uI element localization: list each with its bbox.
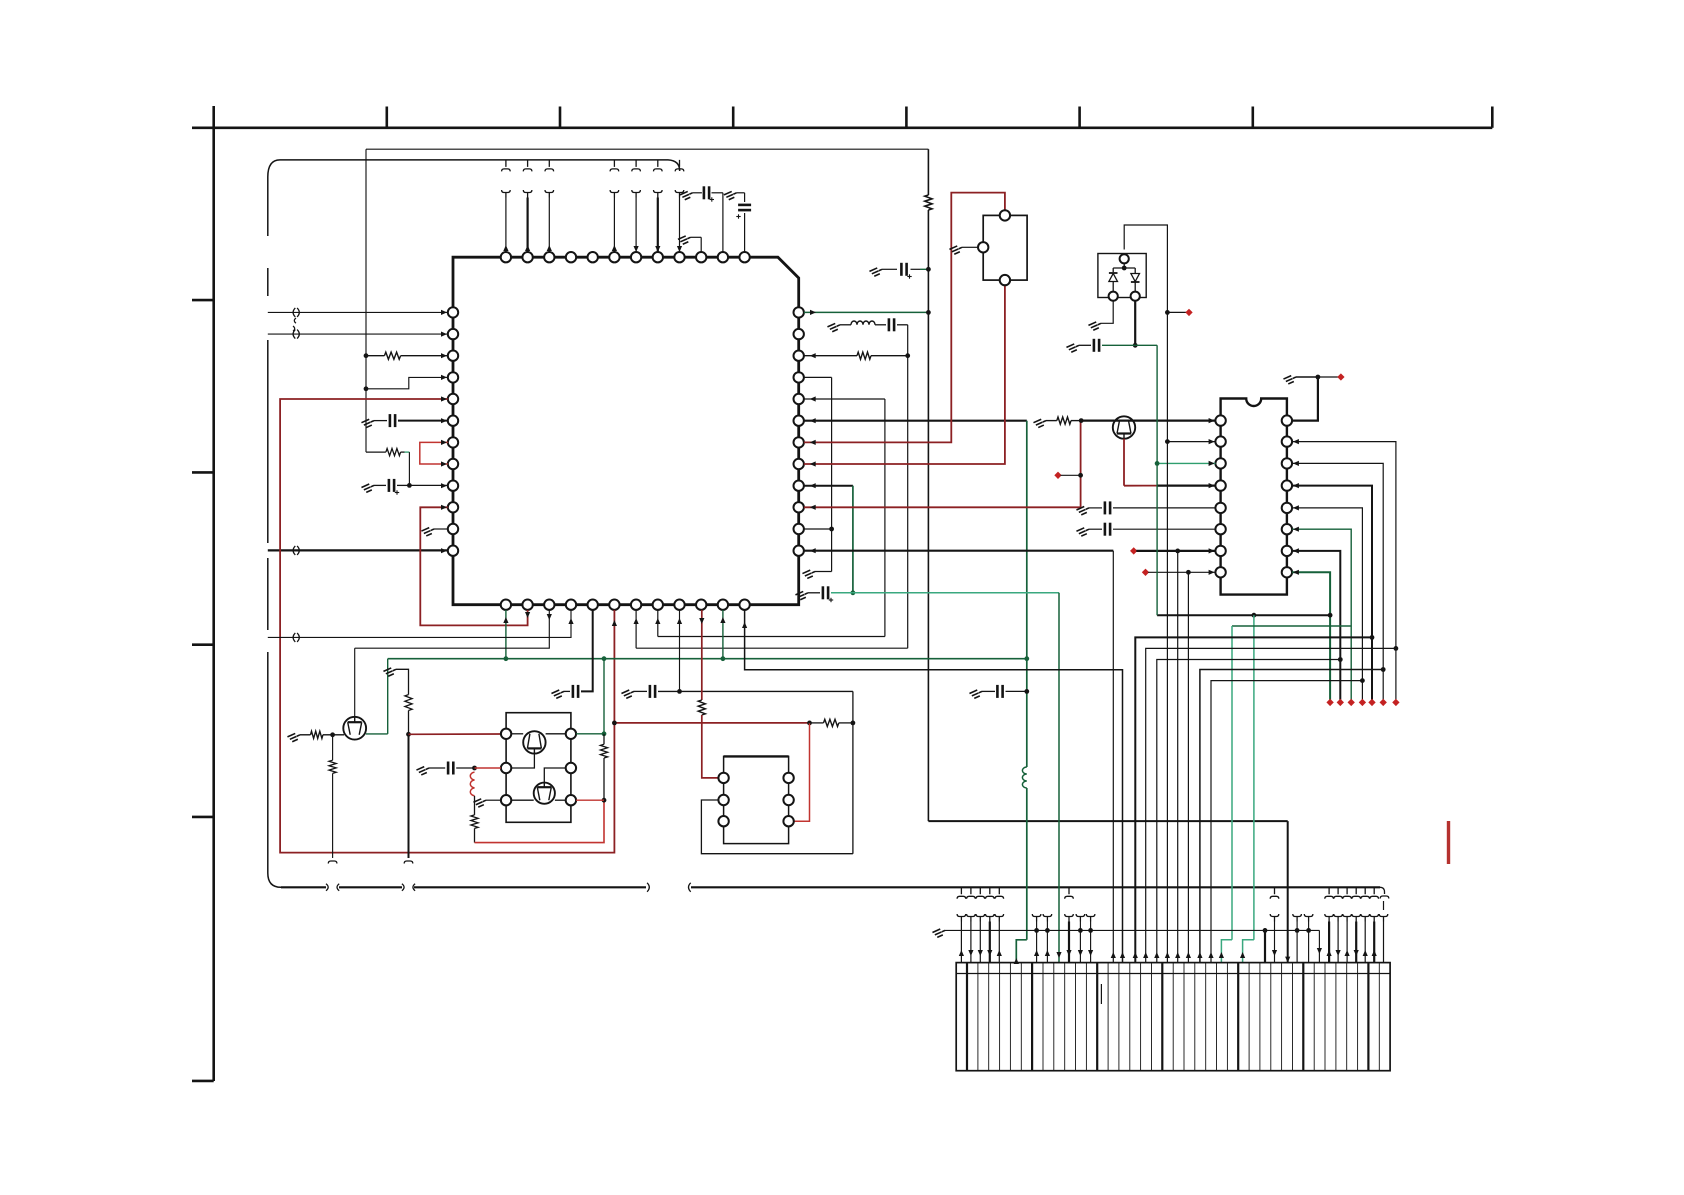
connector CN outline bbox=[956, 963, 1390, 1071]
resistor row y452 to L9 node bbox=[366, 451, 386, 453]
wire U2-L7 with testpoint bbox=[1130, 547, 1137, 554]
resonator X1 box bbox=[983, 215, 1027, 280]
cap gnd to U2-L5 bbox=[1076, 505, 1090, 516]
vertical x332.6 with resistor to edge bbox=[332, 735, 334, 760]
diode D1a bbox=[1112, 268, 1114, 272]
wire U2-R6 green bbox=[1292, 529, 1351, 700]
filter pins bbox=[718, 773, 728, 783]
wire U1-B11 green drop bbox=[722, 610, 724, 659]
wire bundle verticals entering connector bbox=[1177, 551, 1179, 963]
wire U2-R1 to ground and testpoint bbox=[1292, 377, 1318, 421]
wire U1-R10 red to transistor base node bbox=[804, 506, 1081, 508]
wire row y615 thick R8 net bbox=[1157, 614, 1330, 616]
wire green vertical x1026.8 with coil to connector bbox=[1026, 421, 1028, 659]
resonator ground leg bbox=[962, 246, 978, 248]
red net L10 to B2 bbox=[420, 507, 527, 625]
resistor between red and cap net y723 bbox=[824, 719, 839, 726]
red branch B6 row y723 bbox=[614, 722, 809, 724]
red loop bottom bbox=[475, 800, 605, 842]
wire x928 bottom run to connector bbox=[928, 820, 1287, 822]
wire green U1-R1 to x928 bbox=[804, 311, 929, 313]
wire U1-B5 cap gnd bbox=[581, 610, 593, 692]
filter box FL1 bbox=[724, 756, 789, 843]
wire U1-B4 to board edge bbox=[268, 610, 571, 638]
ground bus stubs right bbox=[1295, 928, 1300, 933]
wire D1 left leg to ground bbox=[1101, 301, 1113, 324]
wire row y659 R7 net bbox=[1157, 660, 1341, 963]
stub testpoint y312 on x1167 bbox=[1165, 310, 1170, 315]
wire D1 right leg green node bbox=[1134, 301, 1136, 346]
U1 pin12 series cap to ground bbox=[744, 193, 746, 202]
transistor Q2 bbox=[1113, 416, 1135, 438]
capacitor C to ground at x928 y269 bbox=[869, 266, 883, 277]
wire U2-L8 with testpoint bbox=[1142, 569, 1149, 576]
wire U2-R2 down right bbox=[1292, 442, 1396, 700]
stub red testpoint y475 bbox=[1054, 472, 1061, 479]
wire U1-B3 to Q1 collector bbox=[355, 610, 550, 648]
red to box1 R3 bbox=[576, 799, 604, 801]
wire row y680 R5 net bbox=[1211, 681, 1362, 963]
wire U2-R3 bbox=[1292, 463, 1383, 699]
wire green node to x1157 bbox=[1135, 344, 1157, 346]
single stub pair x1274.5 bbox=[1270, 887, 1279, 899]
red down to box2 R3 bbox=[794, 723, 810, 821]
U1 pin11 cap to ground bbox=[722, 193, 724, 252]
wire U1-L2 from board edge bbox=[268, 333, 448, 335]
wire row y626 green R6 net bbox=[1232, 625, 1351, 627]
wire U2-L3 green bbox=[1157, 462, 1215, 464]
microcontroller U1 QFP outline bbox=[453, 257, 799, 605]
transistor array box bbox=[506, 713, 571, 823]
ground resistor at Q2 base bbox=[1033, 418, 1047, 429]
U1 bottom pins bbox=[501, 600, 511, 610]
wire Q1 emitter green to bus bbox=[366, 733, 388, 735]
U2 right pins bbox=[1282, 415, 1292, 425]
single stub pair x1069 bbox=[1065, 887, 1074, 899]
cap gnd to U1-L6 bbox=[361, 418, 375, 429]
red wire to box1 L1 bbox=[409, 733, 501, 735]
U1 top pins bbox=[501, 252, 511, 262]
wire U1-B1 green drop bbox=[505, 610, 507, 659]
wire U1-L12 thick from board edge bbox=[268, 549, 448, 551]
ground bus thick pin x1265 bbox=[1263, 928, 1268, 933]
wire main vertical x928 with resistor bbox=[927, 149, 929, 195]
wire U1-R12 thick to connector bbox=[804, 550, 1113, 552]
vertical net x366 bbox=[365, 149, 367, 452]
filter chain gnd-coil-cap at y325 bbox=[827, 322, 841, 333]
wire U1-B10 red through resistor to box2 bbox=[701, 610, 703, 700]
wire net top horizontal y149 bbox=[366, 148, 928, 150]
green bus y658.7 bbox=[388, 658, 1027, 660]
connector marks on left edge wires bbox=[293, 308, 295, 317]
vertical x852.9 cap net bbox=[852, 691, 854, 723]
wire U1-R7 red via top to resonator bbox=[804, 193, 1005, 443]
board outline top edge bbox=[268, 160, 680, 177]
coil resistor chain x474.5 bbox=[470, 772, 474, 796]
transistor Q3 bbox=[511, 733, 523, 735]
red net U1-L5 to B6 bbox=[280, 399, 614, 853]
wire row y669 R3 net bbox=[1200, 670, 1383, 963]
gnd polcap to U1-L9 bbox=[361, 482, 375, 493]
wire D1 top to vertical x1167 bbox=[1124, 225, 1167, 963]
board edge end hook wire bbox=[1383, 901, 1385, 910]
border tick marks top bbox=[385, 107, 388, 128]
cap gnd to U2-L6 bbox=[1076, 526, 1090, 537]
right group connector stub pairs bbox=[1325, 887, 1334, 899]
cap gnd at green node y345 bbox=[1066, 342, 1080, 353]
board outline bottom edge (broken) bbox=[268, 873, 281, 887]
wire U1-R9 green to teal row bbox=[804, 485, 853, 487]
wire Q2 collector row to U2-L1 bbox=[1081, 420, 1215, 422]
U2 left pins bbox=[1215, 415, 1225, 425]
board outline left edge (broken) bbox=[267, 177, 269, 236]
wire U1-R3 resistor net bbox=[810, 353, 816, 358]
diode pack D1 box bbox=[1098, 254, 1146, 298]
connector slot lines bbox=[978, 963, 1379, 1071]
ground bus above connector bbox=[932, 927, 946, 938]
resistor on x604 bbox=[603, 734, 605, 745]
wire U2-R8 green thick bbox=[1292, 572, 1330, 700]
ic U2 DIP outline with notch bbox=[1221, 399, 1287, 595]
box pins bbox=[501, 729, 511, 739]
connector inner tick bbox=[1100, 984, 1102, 1004]
ground resistor at Q1 base bbox=[287, 732, 301, 743]
border tick marks left bbox=[192, 299, 214, 302]
red tick mark right side bbox=[1447, 821, 1450, 864]
wire row y648 R2 net bbox=[1146, 648, 1396, 962]
D1 internal top tie bbox=[1122, 266, 1127, 271]
wire U1-B12 to connector bbox=[745, 610, 1123, 963]
wire U2-L2 from diode net bbox=[1167, 441, 1215, 443]
wire U1-R5 to B8 bbox=[804, 398, 885, 400]
U1 left pins bbox=[448, 307, 458, 317]
wire U1-B7 to R3 net bbox=[636, 647, 908, 649]
wire row y637 thick R4 net bbox=[1135, 637, 1372, 962]
wire U2-R5 bbox=[1292, 508, 1362, 700]
cap gnd to box1 L2 node bbox=[416, 765, 430, 776]
U1 right pins bbox=[794, 307, 804, 317]
wire U1-L1 from board edge bbox=[268, 311, 448, 313]
connector header line bbox=[956, 973, 1390, 975]
wire Q2 emitter red to U2-L4 bbox=[1123, 439, 1125, 486]
red loop U1-L7 L8 bbox=[420, 442, 448, 464]
green branch from bus to box1 R1 bbox=[603, 659, 605, 734]
wire U1-L4 jog bbox=[364, 386, 369, 391]
transistor Q1 bbox=[343, 717, 366, 740]
diode D1b bbox=[1134, 268, 1136, 274]
top connector bus hooks and receptacles bbox=[502, 160, 511, 172]
page border frame bbox=[212, 106, 215, 1081]
wire U2-R7 thick bbox=[1292, 551, 1340, 700]
wire to box2 L2 loop bbox=[701, 800, 853, 854]
cap gnd to green x1026 y691 bbox=[969, 688, 983, 699]
U1 pin10 ground wire bbox=[700, 237, 702, 252]
wire U1-R4 R11 to ground bbox=[804, 376, 832, 378]
wire U1-R8 red from resonator bottom bbox=[804, 285, 1005, 464]
left group connector stub pairs bbox=[957, 887, 966, 899]
ground bus stubs bbox=[1034, 928, 1039, 933]
ground at U1-L11 bbox=[434, 528, 448, 530]
wire U1-L3 resistor bbox=[364, 353, 369, 358]
ground at box1 L3 bbox=[486, 799, 501, 801]
transistor Q4 bbox=[534, 783, 555, 804]
wire U2-R4 thick bbox=[1292, 486, 1372, 700]
teal row gnd polcap to x1059 bbox=[795, 590, 809, 601]
wire U1-R6 thick to green vertical bbox=[804, 420, 1027, 422]
ground chain x408.5 bbox=[383, 666, 397, 677]
wire U1-B9 cap gnd row bbox=[621, 688, 635, 699]
